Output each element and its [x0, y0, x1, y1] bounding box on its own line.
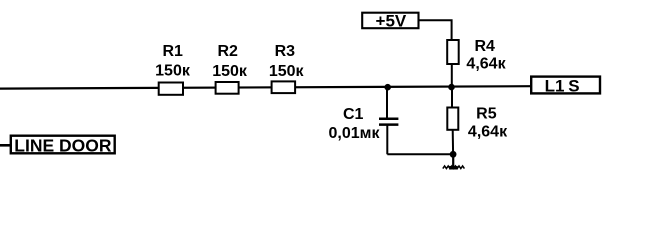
- svg-text:L1S: L1S: [545, 76, 580, 95]
- svg-text:R4: R4: [474, 38, 495, 55]
- wire: node B down to top of R5: [451, 88, 453, 108]
- svg-text:R2: R2: [217, 43, 238, 60]
- net +5V box: [362, 13, 418, 29]
- resistor R1: [159, 83, 183, 95]
- ground: [443, 154, 465, 170]
- svg-text:R5: R5: [476, 106, 497, 123]
- resistor R3: [272, 81, 296, 93]
- svg-text:C1: C1: [343, 106, 364, 123]
- capacitor C1: [379, 88, 398, 154]
- svg-text:+5V: +5V: [376, 11, 407, 30]
- svg-text:4,64к: 4,64к: [466, 56, 506, 73]
- svg-text:LINE DOOR: LINE DOOR: [14, 135, 112, 155]
- wire: R5 bottom to ground junction: [452, 130, 454, 155]
- resistor R4: [447, 40, 459, 64]
- svg-text:150к: 150к: [212, 63, 248, 80]
- svg-text:R1: R1: [162, 43, 183, 60]
- svg-text:0,01мк: 0,01мк: [329, 125, 381, 142]
- resistor R2: [216, 82, 239, 94]
- node A: junction of C1 with main wire: [384, 84, 391, 91]
- node B: junction of R4/R5 with main wire: [448, 84, 455, 91]
- svg-text:150к: 150к: [155, 63, 191, 80]
- svg-text:4,64к: 4,64к: [468, 124, 508, 141]
- node LINE DOOR: terminal box: [11, 136, 115, 154]
- wire: from +5V box to top of R4: [419, 20, 452, 41]
- svg-text:150к: 150к: [269, 63, 305, 80]
- wire: stub from left edge to LINE DOOR box: [0, 144, 12, 147]
- wire: main horizontal line from left edge to L1 S box: [0, 86, 531, 88]
- resistor R5: [447, 108, 458, 130]
- wire: R4 bottom to main wire node B: [451, 64, 453, 88]
- node C: ground junction of C1 and R5: [450, 151, 457, 158]
- svg-text:R3: R3: [275, 43, 296, 60]
- wire: C1 bottom to ground junction: [387, 153, 453, 155]
- node L1 S: terminal box: [531, 77, 600, 94]
